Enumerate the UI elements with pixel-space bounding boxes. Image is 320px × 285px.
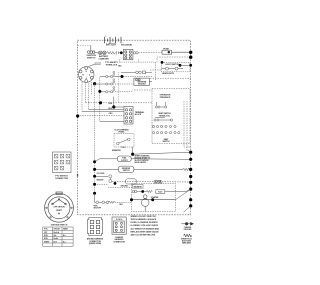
svg-text:SWITCH: SWITCH [162, 141, 170, 143]
node long wire [99, 101, 102, 104]
wire module bottom [134, 89, 152, 91]
svg-text:BLK: BLK [120, 204, 124, 206]
wire second top [157, 57, 191, 62]
svg-text:REPLACE WITH SAME GAUGE: REPLACE WITH SAME GAUGE [131, 230, 160, 233]
svg-text:(INSIDE VIEW): (INSIDE VIEW) [89, 243, 102, 245]
seat module dashed box [152, 89, 190, 144]
svg-text:MOVE LEVER: MOVE LEVER [135, 162, 147, 164]
node engine mid [151, 198, 154, 201]
battery B1 [105, 37, 122, 43]
svg-text:MAGNETO: MAGNETO [134, 185, 143, 188]
node bus r2 [189, 158, 192, 161]
light switch box [162, 62, 191, 72]
svg-text:RED: RED [109, 103, 113, 105]
wire ignition top [89, 64, 101, 67]
node ladder a [98, 90, 101, 93]
svg-text:CHARGER: CHARGER [98, 58, 109, 61]
ignition unit coil [88, 46, 97, 54]
svg-text:15 14 13: 15 14 13 [116, 218, 123, 221]
node bus r3 [189, 168, 192, 171]
connector block 2 [112, 217, 126, 234]
svg-text:IGNITION SWITCH: IGNITION SWITCH [51, 224, 68, 226]
svg-text:WIRING COLOR CODE FOR: WIRING COLOR CODE FOR [131, 216, 157, 218]
svg-text:M+G+A: M+G+A [54, 231, 60, 234]
interlock ladder rung 3 [100, 91, 133, 93]
svg-text:THIS SCHEMATIC: B-BLACK: THIS SCHEMATIC: B-BLACK [131, 218, 157, 221]
switch table [43, 227, 73, 246]
diagonal to bus [176, 190, 191, 200]
node bus engine2 [189, 198, 192, 201]
rounded box A [117, 156, 131, 162]
interlock ladder rung 2 [95, 83, 134, 85]
frame border [78, 40, 191, 215]
junction dot solenoid left [120, 51, 123, 54]
svg-text:CONNECTOR: CONNECTOR [55, 178, 68, 180]
svg-text:PRESENCE: PRESENCE [160, 97, 171, 99]
svg-text:SWITCH: SWITCH [123, 170, 130, 172]
wire top module row [121, 71, 152, 74]
node bus r1 [189, 151, 192, 154]
rounded box B [118, 166, 134, 172]
ground symbol legend [182, 222, 194, 225]
svg-text:WIRE ASM.: WIRE ASM. [182, 242, 192, 245]
node cluster [114, 182, 117, 185]
node lightbox corner [161, 61, 164, 64]
node rung1 [121, 75, 124, 78]
wire + circuit breaker zigzag [97, 51, 124, 55]
interlock ladder rung 1 [100, 76, 152, 78]
svg-text:+: + [105, 35, 107, 37]
svg-text:BLK: BLK [109, 108, 113, 110]
node bus top A [189, 51, 192, 54]
node spark [141, 190, 144, 193]
svg-text:G-GREEN, Y-YELLOW. CHECK: G-GREEN, Y-YELLOW. CHECK [131, 225, 159, 227]
svg-text:R-RED, O-ORANGE, W-WHITE: R-RED, O-ORANGE, W-WHITE [131, 221, 159, 224]
note paragraph [131, 216, 160, 237]
svg-text:AMMETER: AMMETER [112, 149, 121, 152]
node tb top [112, 105, 115, 108]
engine dashed box [132, 184, 176, 212]
svg-text:AND COLOR BEFORE USE.: AND COLOR BEFORE USE. [131, 234, 156, 237]
node feeder 2 [93, 175, 96, 178]
vertical right of ladder [118, 72, 120, 103]
svg-text:HEADLIGHTS: HEADLIGHTS [162, 72, 174, 75]
node bus r4 [189, 175, 192, 178]
svg-text:SENSOR: SENSOR [97, 180, 105, 182]
svg-text:OFF: OFF [44, 232, 47, 234]
node bus r5 [189, 181, 192, 184]
pto connector block [53, 152, 72, 173]
starter motor M1 [132, 195, 176, 212]
wire under solenoid [120, 59, 156, 62]
svg-text:START: START [56, 209, 63, 212]
diagonal bottom [184, 206, 191, 212]
engine inner small box [133, 185, 144, 189]
charger plug circles [98, 51, 106, 55]
node engine left [130, 198, 133, 201]
svg-text:SOLENOID: SOLENOID [121, 45, 132, 47]
svg-text:LIGHT SWITCH: LIGHT SWITCH [165, 64, 179, 66]
seat module internals [152, 102, 180, 134]
svg-text:M: M [82, 75, 84, 77]
svg-text:OFF ON RUN: OFF ON RUN [53, 207, 65, 209]
border tick [77, 174, 78, 177]
node lightswitch top [179, 64, 182, 67]
small box on wire [126, 179, 137, 184]
svg-text:BLOCK: BLOCK [135, 114, 142, 116]
node bus top B [189, 56, 192, 59]
svg-text:MODULE: MODULE [138, 84, 147, 86]
svg-text:OIL LEVEL: OIL LEVEL [97, 173, 105, 175]
coil symbol legend [184, 234, 192, 237]
svg-text:SWITCH: SWITCH [87, 57, 96, 59]
ignition switch S1 circle [78, 67, 94, 83]
node feeder 1 [93, 168, 96, 171]
svg-text:B+L: B+L [54, 235, 57, 237]
svg-text:INTERLOCK: INTERLOCK [159, 116, 170, 118]
svg-text:B: B [86, 71, 88, 73]
fuel row [95, 193, 132, 203]
connector block 1 [88, 218, 103, 236]
clutch brake dashed box [114, 134, 134, 148]
svg-text:ORG: ORG [109, 113, 114, 115]
zigzag before bus [183, 168, 191, 170]
right inner verticals [184, 101, 190, 151]
terminal block TB1 [113, 97, 115, 108]
svg-text:BATTERY: BATTERY [106, 44, 117, 47]
svg-text:ALL WIRES FOR DAMAGE AND: ALL WIRES FOR DAMAGE AND [131, 227, 160, 230]
node bus engine1 [189, 188, 192, 191]
svg-text:CONNECTOR: CONNECTOR [113, 241, 125, 243]
wire solenoid to fuse [133, 52, 135, 54]
relay module box U1 [134, 78, 149, 85]
node ignition bottom [93, 82, 96, 85]
oil switch cluster [109, 175, 112, 183]
wires ignition down [82, 78, 100, 194]
node border mid [76, 114, 79, 117]
node clutch [131, 153, 134, 156]
svg-text:CIRCUIT: CIRCUIT [54, 229, 61, 231]
wire feeder light box [150, 62, 162, 80]
svg-text:INTERLOCK: INTERLOCK [106, 65, 118, 67]
node feeder 3 [93, 183, 96, 186]
svg-text:B+A+I: B+A+I [54, 237, 59, 240]
spark row [132, 190, 186, 194]
svg-text:GROUND: GROUND [184, 229, 192, 231]
key switch face [45, 192, 74, 222]
wire clutch to node [132, 147, 134, 154]
long dashed wire mid [86, 102, 153, 104]
svg-text:SHUTOFF: SHUTOFF [94, 208, 102, 210]
interlock vertical contacts [113, 71, 115, 90]
node bus engine3 [189, 204, 192, 207]
svg-text:A: A [86, 77, 88, 80]
svg-text:GROUND: GROUND [121, 185, 129, 187]
svg-text:S: S [89, 75, 90, 77]
wire top inner dashed [78, 45, 93, 47]
node feeder 4 [93, 192, 96, 195]
svg-text:RED: RED [118, 66, 122, 68]
wire module right [149, 81, 152, 83]
svg-text:CUTOFF: CUTOFF [121, 160, 129, 162]
wires lower rows from feeder [95, 169, 191, 187]
